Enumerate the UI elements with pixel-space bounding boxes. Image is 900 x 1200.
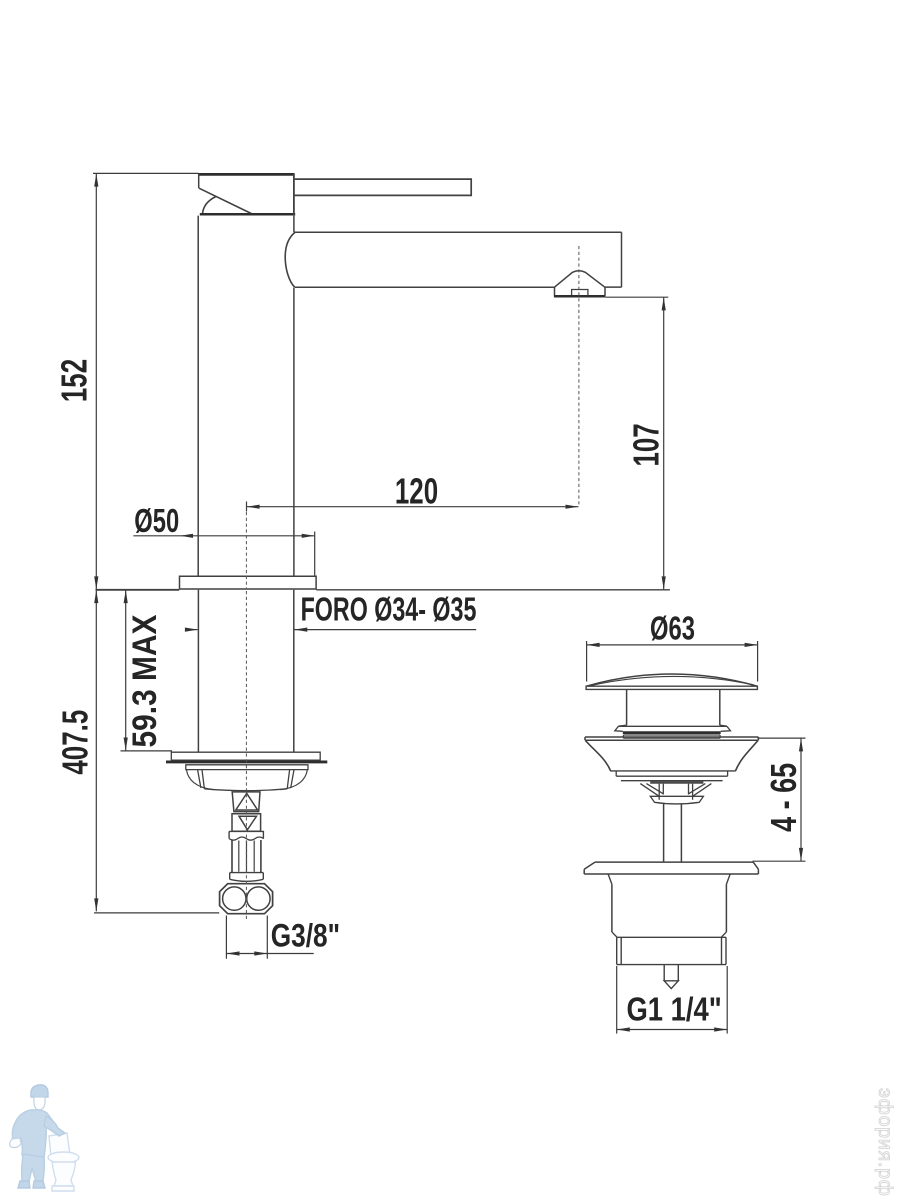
trumpet left concave side bbox=[585, 740, 610, 770]
svg-text:эфория.рф: эфория.рф bbox=[874, 1088, 896, 1197]
faucet handle right edge bbox=[293, 174, 295, 216]
svg-text:407.5: 407.5 bbox=[55, 710, 95, 775]
body bottom bevel bbox=[612, 932, 727, 937]
plumber mascot logo bbox=[10, 1085, 79, 1191]
popup waste cap dome bbox=[586, 674, 757, 686]
dim line 152 bbox=[95, 174, 97, 590]
plumber torso jacket bbox=[12, 1110, 58, 1158]
FORO left stub bbox=[186, 629, 198, 631]
leader O50 underline bbox=[133, 535, 180, 537]
hose fitting segment B bbox=[232, 814, 261, 831]
popup collar top bbox=[615, 726, 731, 731]
trumpet flange top band bbox=[585, 737, 758, 740]
svg-text:152: 152 bbox=[54, 359, 94, 402]
svg-text:G1 1/4": G1 1/4" bbox=[627, 992, 722, 1028]
faucet column right edge upper bbox=[293, 216, 295, 233]
svg-text:FORO Ø34- Ø35: FORO Ø34- Ø35 bbox=[301, 592, 477, 629]
fitting triangle down bbox=[239, 816, 257, 830]
cage bottom collar bbox=[650, 796, 703, 804]
centerline aerator vertical bbox=[578, 246, 580, 506]
arrow 4-65 down bbox=[799, 848, 803, 861]
mounting nut curved bottom bbox=[204, 789, 287, 791]
arrow G1 left bbox=[617, 1027, 630, 1031]
trumpet right concave side bbox=[736, 740, 759, 770]
dim line 59.3 MAX bbox=[125, 590, 127, 751]
popup band2 bbox=[623, 735, 720, 738]
stub column centerline top bbox=[246, 502, 248, 512]
hose fitting segment A bbox=[232, 792, 260, 812]
waste body sides bbox=[612, 884, 727, 932]
extension line faucet top bbox=[93, 172, 199, 174]
arrow 407.5 down bbox=[94, 898, 98, 911]
spout bottom left segment bbox=[295, 286, 555, 288]
arrow 152 up bbox=[94, 174, 98, 187]
arrow 120 left bbox=[247, 505, 260, 509]
lower flange chamfered disk bbox=[584, 862, 758, 874]
svg-text:Ø63: Ø63 bbox=[650, 611, 695, 648]
extension G1 left bbox=[616, 966, 618, 1034]
popup o-ring thick band bbox=[623, 731, 721, 734]
svg-text:Ø50: Ø50 bbox=[134, 503, 179, 540]
shank left edge bbox=[197, 590, 199, 752]
under-deck washer plate bbox=[171, 752, 320, 760]
centerline faucet column bbox=[245, 512, 247, 589]
extension line 59.3 bottom bbox=[121, 750, 173, 752]
spout bottom right segment bbox=[605, 286, 622, 288]
dim line 4-65 bbox=[800, 738, 802, 861]
arrow 4-65 up bbox=[799, 738, 803, 751]
aerator notch bbox=[572, 290, 588, 296]
extension 4-65 bottom bbox=[753, 860, 806, 862]
arrow G1 right bbox=[714, 1027, 727, 1031]
arrow G38 left bbox=[227, 951, 240, 955]
threaded section bbox=[617, 937, 726, 964]
mounting nut sides bbox=[198, 770, 294, 789]
extension 4-65 top bbox=[758, 737, 806, 739]
plumber face bbox=[34, 1097, 45, 1110]
faucet handle arc bbox=[203, 197, 217, 214]
aerator bottom thick bbox=[554, 295, 606, 298]
waste tailpipe bbox=[664, 804, 682, 862]
extension line 107 top bbox=[606, 296, 669, 298]
svg-text:59.3 MAX: 59.3 MAX bbox=[125, 614, 163, 748]
popup waste stem bbox=[627, 690, 720, 726]
dim line G3/8 with leader bbox=[227, 953, 314, 955]
hose ferrule bbox=[230, 873, 264, 880]
dim line 407.5 bbox=[95, 590, 97, 911]
extension line 407.5 bottom bbox=[94, 912, 219, 914]
arrow 107 down bbox=[662, 576, 666, 589]
faucet handle base bbox=[200, 213, 295, 216]
FORO leader underline bbox=[295, 629, 477, 631]
faucet column left edge bbox=[197, 216, 199, 576]
spout left bulge curve bbox=[285, 233, 295, 288]
nut circle right bbox=[247, 887, 270, 910]
arrow FORO right-pointing bbox=[185, 628, 198, 632]
svg-text:G3/8": G3/8" bbox=[271, 919, 340, 954]
extension O50 right bbox=[314, 532, 316, 577]
mounting nut skirt curves bbox=[187, 770, 308, 790]
extension O63 right bbox=[757, 641, 759, 682]
plumber hand left bbox=[10, 1138, 21, 1148]
arrow 59.3 down bbox=[124, 738, 128, 751]
svg-text:120: 120 bbox=[395, 471, 438, 511]
arrow 107 up bbox=[662, 297, 666, 310]
popup waste cap rim band bbox=[586, 686, 757, 689]
body neck taper bbox=[608, 874, 730, 884]
faucet lever bar bbox=[295, 179, 472, 195]
strut right outer bbox=[689, 784, 712, 797]
underside shaded band bbox=[650, 781, 703, 784]
arrow O50 left bbox=[180, 534, 193, 538]
deck line right bbox=[316, 589, 670, 591]
faucet column right edge lower bbox=[293, 288, 295, 576]
arrow 407.5 up bbox=[94, 590, 98, 603]
base plate bbox=[180, 576, 317, 589]
strut left outer bbox=[640, 784, 663, 797]
arrow 152 down bbox=[94, 576, 98, 589]
second washer plate bbox=[186, 765, 308, 770]
centerline under-deck shank and hose bbox=[245, 591, 247, 920]
extension G3/8 right bbox=[266, 916, 268, 959]
popup collar flare bbox=[618, 725, 727, 726]
hose collar bbox=[229, 831, 263, 838]
plumber legs bbox=[22, 1154, 45, 1182]
dim line G1 1/4 bbox=[617, 1029, 727, 1031]
faucet handle cap top bbox=[198, 173, 294, 176]
toilet tank bbox=[49, 1133, 70, 1157]
hose ferrule bottom arc bbox=[230, 879, 264, 881]
extension O63 left bbox=[586, 641, 588, 682]
faucet handle left edge bbox=[198, 174, 200, 189]
popup waste cap dome inner arc bbox=[590, 676, 754, 685]
nut circle left bbox=[223, 887, 246, 910]
toilet base bbox=[52, 1186, 74, 1191]
plumber boots bbox=[18, 1181, 45, 1188]
arrow 120 right bbox=[566, 505, 579, 509]
toilet pedestal bbox=[52, 1162, 76, 1186]
braided hose inner lines bbox=[239, 841, 254, 872]
extension G3/8 left bbox=[225, 916, 227, 959]
arrow O63 right bbox=[745, 643, 758, 647]
trumpet bottom rim line2 bbox=[616, 771, 727, 776]
dim line O50 bbox=[180, 535, 315, 537]
fitting triangle up bbox=[236, 793, 258, 810]
toilet bowl rim bbox=[48, 1152, 79, 1163]
plumber cap bbox=[31, 1085, 48, 1097]
svg-text:107: 107 bbox=[626, 423, 666, 466]
aerator sides bbox=[555, 287, 606, 295]
shank right edge bbox=[293, 590, 295, 752]
arrow 59.3 up bbox=[124, 590, 128, 603]
arrow FORO left-pointing bbox=[294, 628, 307, 632]
arrow O63 left bbox=[587, 643, 600, 647]
dim line 120 bbox=[247, 506, 579, 508]
plug cage rect bbox=[659, 784, 692, 800]
extension G1 right bbox=[726, 966, 728, 1034]
spout right tip edge bbox=[621, 232, 623, 287]
plumber arm on tank bbox=[44, 1116, 65, 1136]
dim line 107 bbox=[663, 297, 665, 589]
rubber gasket thick line bbox=[166, 760, 327, 763]
trumpet bottom rim line1 bbox=[610, 770, 736, 772]
braided hose outer edges bbox=[232, 840, 261, 872]
spout top line bbox=[294, 231, 621, 233]
faucet handle diagonal bbox=[199, 188, 252, 213]
trumpet bottom rim line3 bbox=[621, 780, 723, 782]
connection nut octagon bbox=[220, 884, 273, 914]
aerator dome bbox=[555, 271, 605, 288]
arrow G38 right bbox=[254, 951, 267, 955]
hose collar scalloped bottom bbox=[229, 837, 264, 840]
deck line left bbox=[96, 589, 180, 591]
drain pin bbox=[664, 965, 678, 989]
svg-text:4 - 65: 4 - 65 bbox=[763, 763, 804, 832]
dim line O63 bbox=[587, 644, 758, 646]
arrow O50 right bbox=[302, 534, 315, 538]
